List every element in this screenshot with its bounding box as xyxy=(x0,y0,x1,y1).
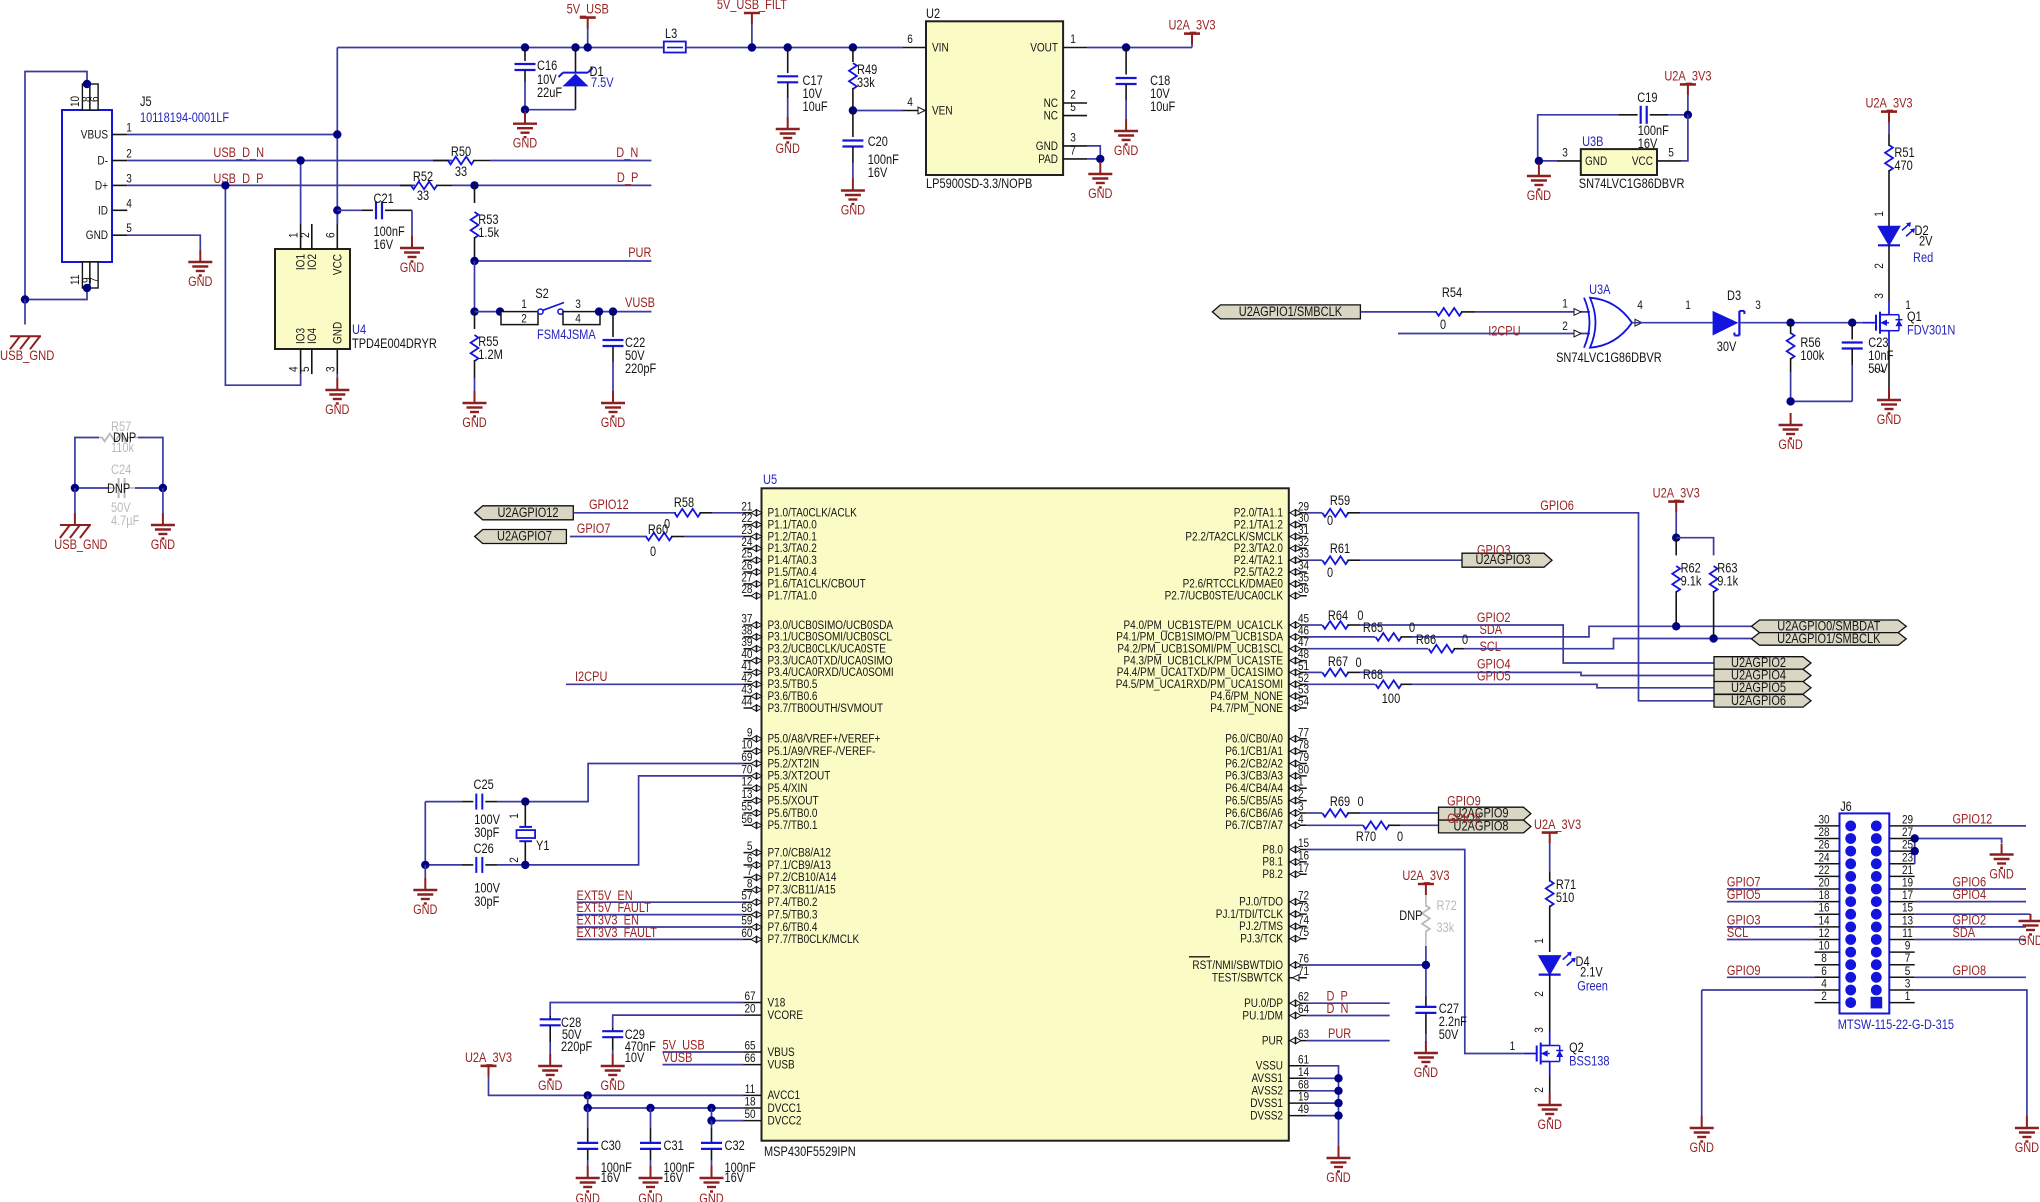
ground GND (Q2) xyxy=(1549,1093,1551,1105)
svg-text:0: 0 xyxy=(1357,794,1363,809)
svg-text:R72: R72 xyxy=(1437,898,1457,913)
port U2AGPIO4 xyxy=(1714,669,1811,682)
power port U2A_3V3 (R72) xyxy=(1418,883,1434,886)
svg-text:GND: GND xyxy=(1414,1065,1439,1080)
wire SDA (J6 right) xyxy=(1915,939,2026,941)
J6 pin 4 xyxy=(1815,989,1840,991)
svg-text:5V_USB: 5V_USB xyxy=(567,2,609,17)
U2 pin 5 NC xyxy=(1063,115,1087,117)
port U2AGPIO9 xyxy=(1439,807,1531,820)
svg-text:U2AGPIO12: U2AGPIO12 xyxy=(497,505,558,520)
svg-text:SN74LVC1G86DBVR: SN74LVC1G86DBVR xyxy=(1579,176,1685,191)
U5 pin 34 P2.5/TA2.2 xyxy=(1289,571,1307,573)
svg-text:BSS138: BSS138 xyxy=(1569,1054,1609,1069)
svg-text:9.1k: 9.1k xyxy=(1717,574,1738,589)
svg-text:D_N: D_N xyxy=(1327,1001,1349,1016)
J6 pin 21 xyxy=(1889,875,1914,877)
svg-text:R65: R65 xyxy=(1363,620,1383,635)
svg-text:DNP: DNP xyxy=(1399,908,1422,923)
U5 pin 53 P4.6/PM_NONE xyxy=(1289,695,1307,697)
crystal Y1 xyxy=(524,802,526,827)
J6 pin 22 xyxy=(1815,875,1840,877)
svg-text:D+: D+ xyxy=(95,178,108,192)
svg-text:P6.7/CB7/A7: P6.7/CB7/A7 xyxy=(1225,818,1283,832)
svg-text:GPIO3: GPIO3 xyxy=(1477,543,1511,558)
svg-text:D3: D3 xyxy=(1727,288,1741,303)
svg-text:GND: GND xyxy=(2015,1140,2040,1155)
resistor R52 xyxy=(400,184,412,186)
wire J6 pin3 to ground xyxy=(1915,990,2027,1116)
svg-text:1: 1 xyxy=(1872,211,1886,217)
wire R49 to U2 VEN xyxy=(853,110,903,112)
svg-text:GND: GND xyxy=(538,1078,563,1093)
svg-text:3: 3 xyxy=(1872,293,1886,299)
U5 pin 73 PJ.1/TDI/TCLK xyxy=(1289,913,1307,915)
resistor R55 xyxy=(474,261,476,312)
svg-text:P5.7/TB0.1: P5.7/TB0.1 xyxy=(768,818,818,832)
svg-text:3: 3 xyxy=(575,297,581,311)
svg-text:USB_D_N: USB_D_N xyxy=(213,145,264,160)
wire U4 VCC to VBUS xyxy=(336,210,338,224)
U4 pin 1 IO1 xyxy=(300,224,302,249)
svg-text:D-: D- xyxy=(97,154,108,168)
LED D2 xyxy=(1878,226,1900,245)
svg-text:U2A_3V3: U2A_3V3 xyxy=(1402,868,1449,883)
wire D_N to right xyxy=(490,160,651,162)
wire EXT3V3_EN xyxy=(577,926,744,928)
J6 pin 1 xyxy=(1889,1002,1914,1004)
U5 pin 13 P5.5/XOUT xyxy=(744,800,762,802)
capacitor C25 xyxy=(425,801,462,803)
port U2AGPIO5 xyxy=(1714,682,1811,695)
svg-text:GND: GND xyxy=(841,203,866,218)
svg-text:R64: R64 xyxy=(1328,608,1349,623)
svg-text:U2A_3V3: U2A_3V3 xyxy=(1168,18,1215,33)
U5 pin 15 P8.0 xyxy=(1289,849,1307,851)
U5 pin 21 P1.0/TA0CLK/ACLK xyxy=(744,512,762,514)
svg-text:33: 33 xyxy=(417,188,429,203)
ground USB_GND (C24) xyxy=(74,488,76,513)
U5 pin 74 PJ.2/TMS xyxy=(1289,925,1307,927)
resistor R56 xyxy=(1790,323,1792,334)
svg-text:R59: R59 xyxy=(1330,493,1350,508)
J6 pin 5 xyxy=(1889,976,1914,978)
wire VBUS from J5 to 5V rail xyxy=(127,134,337,136)
svg-text:U2AGPIO1/SMBCLK: U2AGPIO1/SMBCLK xyxy=(1239,304,1342,319)
svg-text:50: 50 xyxy=(744,1107,755,1121)
svg-text:GND: GND xyxy=(325,402,350,417)
port U2AGPIO1/SMBCLK (to U3A) xyxy=(1212,305,1360,319)
U5 pin 44 P3.7/TB0OUTH/SVMOUT xyxy=(744,707,762,709)
resistor R67 xyxy=(1307,671,1322,673)
svg-text:R52: R52 xyxy=(413,169,433,184)
U5 pin 47 P4.2/PM_UCB1SOMI/PM_UCB1SCL xyxy=(1289,648,1307,650)
svg-text:U2AGPIO6: U2AGPIO6 xyxy=(1731,693,1786,708)
ground GND (U2) xyxy=(1099,162,1101,174)
U5 pin 46 P4.1/PM_UCB1SIMO/PM_UCB1SDA xyxy=(1289,636,1307,638)
svg-text:4: 4 xyxy=(126,196,132,210)
J5 pin 4 ID xyxy=(112,209,127,211)
U2 pin 6 VIN xyxy=(903,47,926,49)
wire VBUS pin xyxy=(663,1051,744,1053)
svg-text:100: 100 xyxy=(1382,691,1400,706)
svg-text:PU.1/DM: PU.1/DM xyxy=(1242,1008,1283,1022)
svg-text:50V: 50V xyxy=(1439,1027,1459,1042)
wire J6 pin15 to ground xyxy=(1915,913,2031,915)
svg-text:16V: 16V xyxy=(868,165,888,180)
port U2AGPIO12 xyxy=(475,506,574,520)
svg-text:GND: GND xyxy=(1088,186,1113,201)
svg-text:16V: 16V xyxy=(725,1170,745,1185)
wire GPIO4 to port xyxy=(1360,672,1714,675)
ground GND (C24 right) xyxy=(162,488,164,513)
ground GND (J6 27/25) xyxy=(2001,844,2003,855)
svg-text:44: 44 xyxy=(741,695,752,709)
ground GND (C31) xyxy=(650,1166,652,1178)
capacitor C27 xyxy=(1425,997,1427,1007)
svg-text:U2A_3V3: U2A_3V3 xyxy=(1664,68,1711,83)
power port 5V_USB xyxy=(580,16,596,19)
U5 pin 52 P4.5/PM_UCA1RXD/PM_UCA1SOMI xyxy=(1289,683,1307,685)
wire R54 to XOR input 1 xyxy=(1475,311,1590,313)
svg-text:470: 470 xyxy=(1894,158,1912,173)
svg-text:EXT3V3_FAULT: EXT3V3_FAULT xyxy=(577,925,658,940)
wire GPIO4 (J6 right) xyxy=(1915,901,2026,903)
U5 pin 33 P2.4/TA2.1 xyxy=(1289,559,1307,561)
svg-text:GND: GND xyxy=(462,415,487,430)
J6 pin 27 xyxy=(1889,838,1914,840)
resistor R69 xyxy=(1307,812,1322,814)
svg-text:FDV301N: FDV301N xyxy=(1907,323,1955,338)
transistor Q1 FDV301N xyxy=(1863,322,1876,324)
wire SCL to port U2AGPIO1/SMBCLK xyxy=(1464,639,1752,649)
svg-text:5V_USB_FILT: 5V_USB_FILT xyxy=(717,0,787,12)
svg-text:C25: C25 xyxy=(474,777,494,792)
svg-text:USB_D_P: USB_D_P xyxy=(213,171,263,186)
resistor R53 xyxy=(474,185,476,203)
svg-text:GND: GND xyxy=(1326,1170,1351,1185)
J5 shield pins bottom (11/9/7) xyxy=(82,262,90,288)
U4 pin 4 IO3 xyxy=(300,349,302,374)
svg-text:GND: GND xyxy=(576,1191,601,1202)
svg-text:U2A_3V3: U2A_3V3 xyxy=(465,1050,512,1065)
svg-text:L3: L3 xyxy=(665,26,677,41)
wire XT2IN xyxy=(525,764,743,802)
wire VUSB pin xyxy=(663,1064,744,1066)
U2 pin 2 NC xyxy=(1063,102,1087,104)
svg-text:U2A_3V3: U2A_3V3 xyxy=(1534,817,1581,832)
svg-text:3: 3 xyxy=(323,366,337,372)
svg-text:U2AGPIO1/SMBCLK: U2AGPIO1/SMBCLK xyxy=(1777,631,1880,646)
wire J6 pins 27/25/23 to ground xyxy=(1915,839,2002,844)
svg-text:1.2M: 1.2M xyxy=(478,347,503,362)
ground GND (C29) xyxy=(612,1054,614,1066)
wire VCORE to C29 xyxy=(613,1015,744,1028)
U5 pin 2 P6.5/CB5/A5 xyxy=(1289,800,1307,802)
svg-text:2: 2 xyxy=(1821,989,1827,1003)
J6 pin 18 xyxy=(1815,901,1840,903)
svg-text:VUSB: VUSB xyxy=(768,1057,795,1071)
xor gate U3A SN74LVC1G86DBVR xyxy=(1590,298,1632,348)
capacitor C20 xyxy=(852,111,854,138)
U5 pin 64 PU.1/DM xyxy=(1289,1015,1307,1017)
svg-text:1: 1 xyxy=(1905,989,1911,1003)
svg-text:220pF: 220pF xyxy=(561,1039,592,1054)
ground GND (C25/C26) xyxy=(424,865,426,878)
svg-text:VCC: VCC xyxy=(330,254,344,275)
svg-text:1.5k: 1.5k xyxy=(478,225,499,240)
svg-text:64: 64 xyxy=(1298,1002,1309,1016)
switch S2 FSM4JSMA xyxy=(475,311,501,313)
svg-text:0: 0 xyxy=(1462,632,1468,647)
svg-text:GND: GND xyxy=(400,260,425,275)
U5 pin 41 P3.4/UCA0RXD/UCA0SOMI xyxy=(744,671,762,673)
U5 pin 50 DVCC2 xyxy=(744,1120,762,1122)
U2 pin 3 GND xyxy=(1063,145,1087,147)
LED D4 xyxy=(1539,956,1561,975)
svg-text:5: 5 xyxy=(1668,146,1674,160)
svg-text:10V: 10V xyxy=(625,1050,645,1065)
U5 pin 12 P5.4/XIN xyxy=(744,787,762,789)
U5 pin 26 P1.5/TA0.4 xyxy=(744,571,762,573)
J6 pin 2 xyxy=(1815,1002,1840,1004)
U5 pin 63 PUR xyxy=(1289,1040,1307,1042)
J6 pin 23 xyxy=(1889,863,1914,865)
capacitor C30 xyxy=(587,1108,589,1128)
U5 pin 5 P7.0/CB8/A12 xyxy=(744,852,762,854)
svg-text:56: 56 xyxy=(741,812,752,826)
svg-text:U2A_3V3: U2A_3V3 xyxy=(1653,486,1700,501)
svg-text:30pF: 30pF xyxy=(474,894,499,909)
svg-text:5: 5 xyxy=(126,221,132,235)
J6 pin 30 xyxy=(1815,825,1840,827)
svg-text:P2.7/UCB0STE/UCA0CLK: P2.7/UCB0STE/UCA0CLK xyxy=(1165,589,1284,603)
svg-text:0: 0 xyxy=(650,544,656,559)
svg-text:49: 49 xyxy=(1298,1102,1309,1116)
svg-text:3: 3 xyxy=(1070,131,1076,145)
resistor R51 xyxy=(1888,134,1890,146)
wire D- net xyxy=(127,160,452,162)
svg-text:R60: R60 xyxy=(648,522,668,537)
U5 pin 56 P5.7/TB0.1 xyxy=(744,824,762,826)
U2 pin 1 VOUT xyxy=(1063,47,1087,49)
port U2AGPIO6 xyxy=(1714,695,1811,708)
svg-text:6: 6 xyxy=(88,96,102,102)
svg-text:DVSS2: DVSS2 xyxy=(1250,1108,1283,1122)
svg-text:LP5900SD-3.3/NOPB: LP5900SD-3.3/NOPB xyxy=(926,176,1032,191)
svg-text:R61: R61 xyxy=(1330,541,1350,556)
svg-text:2: 2 xyxy=(1872,263,1886,269)
capacitor C23 xyxy=(1851,323,1853,340)
resistor R65 xyxy=(1307,636,1375,638)
svg-text:GPIO5: GPIO5 xyxy=(1477,669,1511,684)
ground GND (U5 VSS) xyxy=(1338,1146,1340,1158)
svg-text:GND: GND xyxy=(1778,437,1803,452)
wire GPIO6 (J6 right) xyxy=(1915,888,2026,890)
U5 pin 22 P1.1/TA0.0 xyxy=(744,524,762,526)
svg-text:100k: 100k xyxy=(1800,348,1824,363)
svg-text:C30: C30 xyxy=(601,1138,621,1153)
wire D_P to right xyxy=(452,184,651,186)
capacitor C24 DNP xyxy=(75,487,108,489)
svg-text:VEN: VEN xyxy=(932,104,953,118)
svg-text:P1.7/TA1.0: P1.7/TA1.0 xyxy=(768,589,817,603)
resistor R62 xyxy=(1675,538,1677,556)
wire GPIO12 xyxy=(573,512,676,514)
port U2AGPIO7 xyxy=(475,530,567,544)
zener diode D1 xyxy=(571,43,579,51)
svg-text:SDA: SDA xyxy=(1953,925,1976,940)
svg-text:75: 75 xyxy=(1298,925,1309,939)
J5 pin 1 VBUS xyxy=(112,134,127,136)
J6 pin 7 xyxy=(1889,964,1914,966)
U5 pin 7 P7.2/CB10/A14 xyxy=(744,876,762,878)
J6 pin 14 xyxy=(1815,926,1840,928)
svg-text:DVCC2: DVCC2 xyxy=(768,1113,802,1127)
svg-text:J5: J5 xyxy=(140,94,152,109)
U3B pin 3 GND xyxy=(1557,160,1581,162)
U5 pin 65 VBUS xyxy=(744,1051,762,1053)
svg-text:1: 1 xyxy=(521,297,527,311)
svg-text:PUR: PUR xyxy=(1262,1033,1283,1047)
J6 pin 19 xyxy=(1889,888,1914,890)
J6 pin 11 xyxy=(1889,939,1914,941)
wire GPIO8 to port xyxy=(1400,824,1439,826)
resistor R70 xyxy=(1307,824,1363,826)
capacitor C32 xyxy=(711,1121,713,1128)
ground GND (J6 pin3) xyxy=(2026,1116,2028,1128)
ground GND (C28) xyxy=(549,1054,551,1066)
capacitor C28 xyxy=(549,1016,551,1019)
svg-text:GPIO8: GPIO8 xyxy=(1447,811,1481,826)
wire EXT5V_EN xyxy=(577,901,744,903)
regulator U2 LP5900SD-3.3 xyxy=(926,21,1063,175)
power port U2A_3V3 (R51) xyxy=(1881,110,1897,113)
U5 pin 17 P8.2 xyxy=(1289,873,1307,875)
svg-text:2: 2 xyxy=(1872,367,1886,373)
resistor R58 xyxy=(675,509,701,517)
svg-text:C16: C16 xyxy=(537,58,557,73)
svg-text:IO4: IO4 xyxy=(305,328,319,344)
resistor R57 DNP xyxy=(75,438,99,489)
wire GPIO2 (J6 right) xyxy=(1915,926,2026,928)
svg-text:2: 2 xyxy=(1562,319,1568,333)
U5 pin 36 P2.7/UCB0STE/UCA0CLK xyxy=(1289,595,1307,597)
svg-text:GND: GND xyxy=(413,902,438,917)
svg-text:U2AGPIO7: U2AGPIO7 xyxy=(497,529,552,544)
U5 pin 79 P6.2/CB2/A2 xyxy=(1289,763,1307,765)
U5 pin 45 P4.0/PM_UCB1STE/PM_UCA1CLK xyxy=(1289,624,1307,626)
svg-text:USB_GND: USB_GND xyxy=(54,537,107,552)
svg-text:3: 3 xyxy=(1755,298,1761,312)
svg-text:7: 7 xyxy=(88,277,102,283)
svg-text:SCL: SCL xyxy=(1480,639,1501,654)
svg-text:R54: R54 xyxy=(1442,285,1463,300)
svg-text:5: 5 xyxy=(298,366,312,372)
svg-text:R70: R70 xyxy=(1356,829,1376,844)
svg-text:SCL: SCL xyxy=(1727,925,1748,940)
wire PU.1/DM xyxy=(1307,1015,1390,1017)
U5 pin 48 P4.3/PM_UCB1CLK/PM_UCA1STE xyxy=(1289,660,1307,662)
svg-text:R69: R69 xyxy=(1330,794,1350,809)
svg-text:GND: GND xyxy=(638,1191,663,1202)
U5 pin 62 PU.0/DP xyxy=(1289,1002,1307,1004)
U5 pin 66 VUSB xyxy=(744,1064,762,1066)
wire GPIO5 (J6 left) xyxy=(1727,901,1815,903)
power port U2A_3V3 (AVCC) xyxy=(481,1065,497,1068)
U5 pin 8 P7.3/CB11/A15 xyxy=(744,889,762,891)
svg-text:0: 0 xyxy=(1409,620,1415,635)
U5 pin 14 AVSS1 xyxy=(1289,1077,1307,1079)
U5 pin 28 P1.7/TA1.0 xyxy=(744,595,762,597)
svg-text:6: 6 xyxy=(323,232,337,238)
svg-text:2: 2 xyxy=(521,312,527,326)
wire VUSB net xyxy=(600,311,651,313)
svg-text:PJ.3/TCK: PJ.3/TCK xyxy=(1240,932,1283,946)
svg-text:GND: GND xyxy=(1114,143,1139,158)
svg-text:VBUS: VBUS xyxy=(81,128,108,142)
svg-text:10uF: 10uF xyxy=(803,99,828,114)
wire AVCC1/DVCC rails xyxy=(489,1077,744,1096)
U5 pin 80 P6.3/CB3/A3 xyxy=(1289,775,1307,777)
ground USB_GND (J5 shield) xyxy=(24,300,26,325)
U5 pin 10 P5.1/A9/VREF-/VEREF- xyxy=(744,750,762,752)
U5 pin 35 P2.6/RTCCLK/DMAE0 xyxy=(1289,583,1307,585)
svg-text:C32: C32 xyxy=(725,1138,745,1153)
svg-text:GPIO12: GPIO12 xyxy=(1953,811,1993,826)
svg-text:TEST/SBWTCK: TEST/SBWTCK xyxy=(1212,971,1284,985)
U5 pin 72 PJ.0/TDO xyxy=(1289,901,1307,903)
J6 pin 12 xyxy=(1815,939,1840,941)
svg-text:33k: 33k xyxy=(857,75,875,90)
U4 pin 3 GND xyxy=(336,349,338,374)
svg-text:30pF: 30pF xyxy=(474,825,499,840)
port U2AGPIO3 xyxy=(1462,553,1552,567)
wire 5V_USB rail xyxy=(337,47,664,49)
svg-text:16V: 16V xyxy=(374,237,394,252)
ground GND (Q1) xyxy=(1888,388,1890,400)
svg-text:Green: Green xyxy=(1577,978,1608,993)
svg-text:SDA: SDA xyxy=(1480,622,1503,637)
microcontroller U5 MSP430F5529IPN body xyxy=(762,488,1289,1140)
svg-text:R58: R58 xyxy=(674,495,694,510)
svg-text:4.7µF: 4.7µF xyxy=(111,513,139,528)
svg-text:GND: GND xyxy=(86,228,108,242)
wire GPIO5 to port xyxy=(1412,684,1714,688)
svg-text:1: 1 xyxy=(126,121,132,135)
U5 pin 70 P5.3/XT2OUT xyxy=(744,775,762,777)
svg-text:GND: GND xyxy=(1538,1117,1563,1132)
svg-text:DNP: DNP xyxy=(107,481,130,496)
svg-text:U3B: U3B xyxy=(1582,134,1603,149)
connector J5 body xyxy=(62,110,112,262)
ground GND (C22) xyxy=(612,391,614,403)
wire PU.0/DP xyxy=(1307,1002,1390,1004)
svg-text:9.1k: 9.1k xyxy=(1681,574,1702,589)
J5 pin 5 GND xyxy=(112,234,127,236)
svg-text:1: 1 xyxy=(1562,297,1568,311)
svg-text:C24: C24 xyxy=(111,462,132,477)
power port U2A_3V3 (R71) xyxy=(1542,831,1558,834)
svg-text:GND: GND xyxy=(1527,188,1552,203)
wire GPIO3 to port xyxy=(1360,559,1462,561)
resistor R68 xyxy=(1307,683,1375,685)
svg-text:22uF: 22uF xyxy=(537,85,562,100)
wire PUR net xyxy=(475,260,652,262)
wire GPIO9 (J6 left) xyxy=(1727,976,1815,978)
wire J5 shield to USB_GND xyxy=(25,72,87,300)
svg-text:110k: 110k xyxy=(111,440,134,455)
